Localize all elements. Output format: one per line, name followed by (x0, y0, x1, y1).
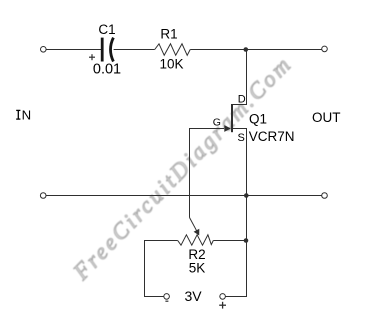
svg-text:N: N (22, 108, 32, 123)
svg-text:C1: C1 (98, 22, 115, 37)
wire positive terminal to source line (225, 241, 246, 297)
svg-text:G: G (213, 116, 221, 128)
battery positive terminal (220, 294, 226, 300)
svg-text:5K: 5K (189, 260, 206, 275)
watermark FreeCircuitDiagram.Com (68, 51, 297, 286)
capacitor C1 (102, 38, 113, 62)
svg-text:10K: 10K (159, 57, 183, 72)
output terminal (322, 46, 328, 52)
svg-text:Q1: Q1 (249, 112, 267, 127)
svg-text:R1: R1 (160, 27, 177, 42)
label IN (16, 110, 20, 119)
svg-text:0.01: 0.01 (93, 62, 121, 78)
transistor Q1 source lead (232, 129, 247, 196)
wire R2 left lead (145, 241, 178, 297)
middle rail right terminal (322, 193, 328, 199)
middle rail wire (46, 195, 322, 197)
node top junction (244, 47, 249, 52)
svg-text:OUT: OUT (312, 110, 341, 125)
wire C1 to R1 (114, 49, 155, 51)
svg-text:3V: 3V (184, 288, 202, 304)
minus sign (165, 300, 168, 302)
wiper arrowhead (194, 229, 200, 236)
svg-text:S: S (238, 132, 245, 144)
resistor R2 (178, 235, 214, 245)
plus sign of C1 (89, 54, 95, 60)
svg-text:VCR7N: VCR7N (249, 129, 295, 144)
wire R1 to output (190, 49, 322, 51)
svg-text:D: D (238, 94, 246, 106)
middle rail left terminal (40, 193, 46, 199)
transistor Q1 channel bar (231, 104, 233, 132)
wire R2 right lead (213, 240, 246, 242)
wire input to C1 (46, 49, 101, 51)
transistor Q1 gate lead (189, 128, 224, 130)
svg-text:FreeCircuitDiagram.Com: FreeCircuitDiagram.Com (68, 51, 297, 286)
wire source down to R2 node (246, 196, 248, 241)
plus sign battery (219, 302, 226, 309)
battery negative terminal (164, 294, 170, 300)
node R2 right junction (244, 238, 249, 243)
wire wiper diagonal (190, 218, 197, 231)
wire drain lead (231, 50, 247, 105)
input terminal (41, 47, 47, 53)
transistor Q1 gate arrow (224, 125, 231, 132)
node middle junction (244, 193, 249, 198)
resistor R1 (155, 44, 191, 56)
wire gate vertical (189, 129, 191, 218)
